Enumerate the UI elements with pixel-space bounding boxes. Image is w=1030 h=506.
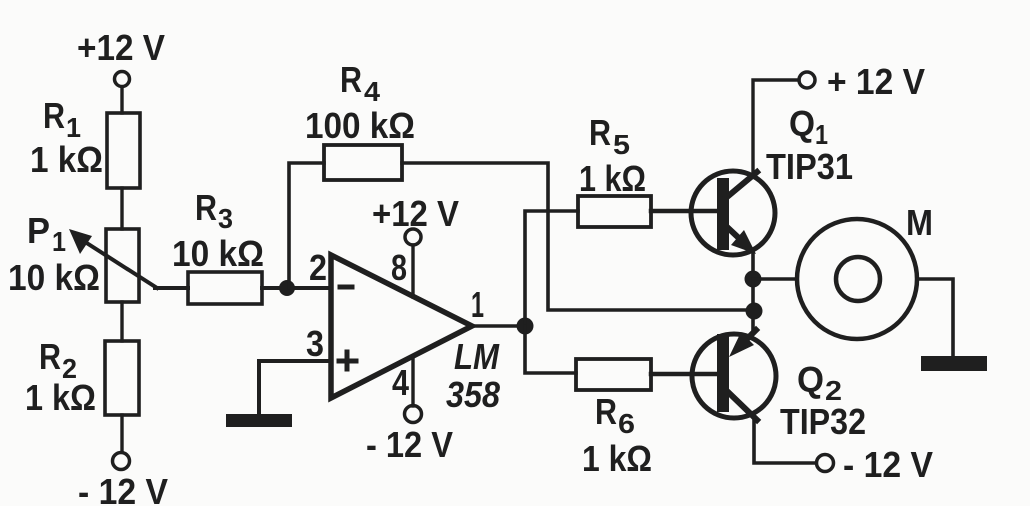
svg-text:- 12 V: - 12 V <box>78 471 168 506</box>
wire Q1 collector to +12V <box>753 80 799 172</box>
wire pin 3 to ground <box>259 361 331 414</box>
svg-text:3: 3 <box>218 203 233 234</box>
wire Q2 collector to -12V <box>754 420 816 463</box>
resistor R5 <box>578 112 651 227</box>
svg-text:1 kΩ: 1 kΩ <box>579 158 646 199</box>
op-amp U1 LM358 <box>306 247 500 415</box>
-12V terminal (left supply) <box>78 453 168 506</box>
transistor Q2 TIP32 <box>692 330 866 442</box>
+12V terminal (op-amp pin 8) <box>372 193 459 245</box>
node C (motor/emitter junction) <box>745 271 762 288</box>
svg-text:M: M <box>906 202 933 243</box>
svg-text:Q: Q <box>789 103 815 144</box>
wire motor to ground <box>917 279 953 356</box>
svg-text:R: R <box>195 187 217 228</box>
svg-text:2: 2 <box>309 247 327 288</box>
node D (feedback junction) <box>746 303 763 320</box>
svg-text:100 kΩ: 100 kΩ <box>305 105 415 146</box>
svg-text:3: 3 <box>306 323 324 364</box>
resistor R2 <box>25 336 139 418</box>
wire P1 to R2 <box>120 302 123 341</box>
-12V terminal (op-amp pin 4) <box>366 406 453 466</box>
node B (op-amp output junction) <box>517 318 534 335</box>
svg-text:+ 12 V: + 12 V <box>827 61 925 102</box>
wire wiper to R3 <box>155 286 188 290</box>
svg-text:6: 6 <box>618 408 635 439</box>
wire output to R6 <box>525 326 576 373</box>
svg-text:1 kΩ: 1 kΩ <box>30 139 103 180</box>
svg-text:1: 1 <box>471 284 484 325</box>
svg-text:- 12 V: - 12 V <box>843 444 933 485</box>
svg-text:LM: LM <box>454 336 500 377</box>
wire R2 to -12V <box>120 415 123 452</box>
transistor Q1 TIP31 <box>691 103 853 255</box>
svg-text:10 kΩ: 10 kΩ <box>172 233 264 274</box>
svg-text:Q: Q <box>797 359 824 400</box>
wire R4 right to feedback node <box>402 163 754 310</box>
svg-text:358: 358 <box>446 374 500 415</box>
wire op-amp output <box>472 324 525 328</box>
svg-text:TIP32: TIP32 <box>780 401 866 442</box>
wire pin 4 <box>411 356 414 406</box>
ground (op-amp non-inverting input) <box>226 414 292 427</box>
-12V terminal (Q2 collector) <box>817 444 934 485</box>
potentiometer P1 <box>8 210 157 302</box>
svg-text:P: P <box>27 210 50 251</box>
wire output to R5 <box>525 211 578 326</box>
svg-text:TIP31: TIP31 <box>766 146 853 187</box>
svg-text:1: 1 <box>52 226 66 257</box>
svg-text:4: 4 <box>364 76 380 107</box>
svg-text:1 kΩ: 1 kΩ <box>25 377 96 418</box>
ground (motor return) <box>921 356 987 371</box>
resistor R3 <box>172 187 264 304</box>
svg-text:8: 8 <box>391 247 407 288</box>
wire feedback left branch <box>289 163 324 288</box>
svg-text:+12 V: +12 V <box>372 193 459 234</box>
wire R5 to Q1 base <box>651 209 716 214</box>
resistor R6 <box>576 359 652 479</box>
svg-text:R: R <box>589 112 611 153</box>
svg-text:R: R <box>340 59 362 100</box>
wire R1 to P1 <box>120 188 123 229</box>
node A (inverting input junction) <box>279 280 295 296</box>
+12V terminal (Q1 collector) <box>799 61 925 102</box>
wire Q1 emitter down <box>751 252 755 279</box>
wire +12V to R1 <box>120 87 123 113</box>
svg-text:R: R <box>43 95 65 136</box>
svg-text:+12 V: +12 V <box>77 27 165 68</box>
svg-text:1 kΩ: 1 kΩ <box>582 438 652 479</box>
svg-text:R: R <box>39 336 61 377</box>
wire pin 8 <box>411 245 414 297</box>
svg-text:4: 4 <box>392 362 409 403</box>
resistor R4 <box>305 59 415 180</box>
wire R3 to op-amp pin 2 <box>262 286 331 290</box>
wire node to motor <box>753 277 797 281</box>
svg-text:- 12 V: - 12 V <box>366 424 453 465</box>
svg-text:5: 5 <box>613 129 630 160</box>
+12V terminal (left supply) <box>77 27 165 87</box>
svg-text:R: R <box>595 391 617 432</box>
motor M <box>797 202 933 339</box>
svg-text:10 kΩ: 10 kΩ <box>8 257 100 298</box>
wire emitter bus <box>751 279 755 332</box>
resistor R1 <box>30 95 140 188</box>
wire R6 to Q2 base <box>651 372 716 377</box>
